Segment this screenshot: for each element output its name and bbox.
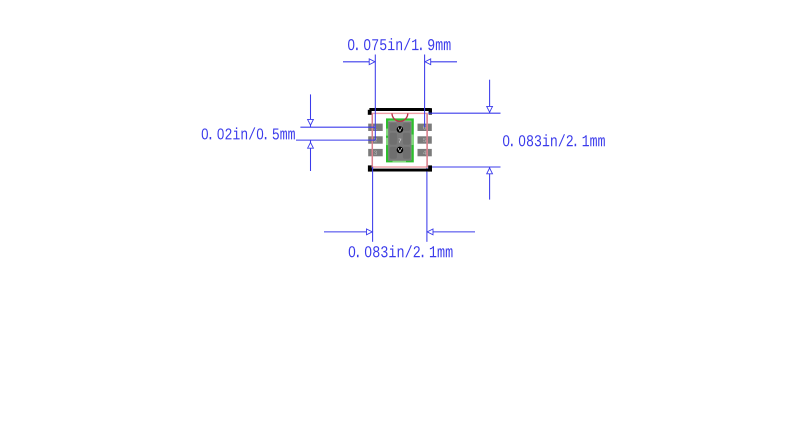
- top dimension arrow left: [369, 59, 375, 65]
- via V2: [397, 147, 404, 154]
- bottom dimension arrow right: [427, 229, 433, 235]
- right dimension line lower: [489, 167, 491, 200]
- paste area mid-left: [390, 133, 397, 145]
- paste area top-left: [390, 123, 397, 131]
- paste area mid-right: [403, 133, 410, 145]
- pad 3: [368, 149, 383, 156]
- component body outline: [387, 120, 412, 162]
- top dimension arrow line left: [343, 61, 370, 63]
- top dimension extension line left: [374, 55, 376, 141]
- silkscreen bottom bar: [368, 165, 432, 171]
- right dimension arrow up: [487, 168, 493, 174]
- pad 5: [418, 136, 432, 143]
- top dimension extension line right: [424, 55, 426, 128]
- thermal pad number 7: [398, 139, 401, 143]
- left dimension label 0.02in/0.5mm: [202, 127, 295, 139]
- courtyard right edge: [426, 113, 428, 167]
- right dimension arrow down: [487, 106, 493, 112]
- body outline light segment right: [411, 135, 413, 146]
- body outline light segment left: [386, 129, 388, 136]
- left dimension extension line upper: [300, 126, 375, 128]
- silkscreen top bar: [368, 108, 432, 115]
- top dimension arrow line right: [430, 61, 457, 63]
- bottom dimension arrow line right: [432, 231, 475, 233]
- top dimension arrow right: [425, 59, 431, 65]
- paste area bottom-left: [390, 147, 397, 159]
- left dimension extension line lower: [296, 139, 375, 141]
- pad 4: [418, 149, 432, 156]
- courtyard outline: [372, 113, 427, 167]
- left dimension arrow up: [308, 142, 314, 148]
- thermal pad 7: [388, 121, 411, 161]
- pad 6: [418, 124, 432, 131]
- left dimension line upper: [310, 94, 312, 127]
- pad 1: [368, 124, 383, 131]
- paste area top-right: [403, 123, 410, 131]
- bottom dimension extension line right (under silkscreen): [426, 167, 428, 242]
- pin 1 indicator arc: [392, 113, 408, 121]
- left dimension arrow down: [308, 119, 314, 125]
- top dimension label 0.075in/1.9mm: [348, 38, 451, 50]
- right dimension extension line upper: [428, 112, 500, 114]
- paste area bottom-right: [403, 147, 410, 159]
- bottom dimension label 0.083in/2.1mm: [349, 245, 453, 257]
- body outline light segment bottom: [393, 160, 407, 162]
- bottom dimension arrow line left: [324, 231, 367, 233]
- pad 2: [368, 136, 383, 143]
- right dimension extension line lower (under silkscreen): [428, 166, 500, 168]
- courtyard left edge: [371, 113, 373, 167]
- via V1: [397, 126, 404, 133]
- bottom dimension arrow left: [367, 229, 373, 235]
- left dimension line lower: [310, 140, 312, 171]
- right dimension line upper: [489, 80, 491, 114]
- right dimension label 0.083in/2.1mm: [503, 134, 605, 146]
- bottom dimension extension line left: [372, 167, 374, 242]
